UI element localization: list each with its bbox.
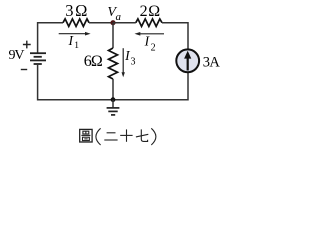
current arrow I3 (pointing down) — [122, 48, 124, 73]
svg-text:1: 1 — [74, 41, 79, 51]
fullwidth right paren — [151, 128, 156, 145]
svg-text:Ω: Ω — [148, 3, 160, 20]
svg-text:a: a — [116, 11, 122, 23]
battery V1 9V plates — [30, 52, 46, 54]
current arrow I2 (pointing left) — [140, 33, 165, 35]
svg-text:3A: 3A — [203, 55, 221, 71]
glyph QI (seven) — [136, 134, 148, 137]
wire bottom node to bottom-right corner — [113, 73, 188, 100]
glyph ER (two) — [107, 132, 116, 134]
glyph TU (figure) — [80, 129, 92, 142]
svg-text:3: 3 — [65, 1, 73, 20]
fullwidth left paren — [96, 128, 101, 145]
wire top-left (battery to 3-ohm resistor) — [38, 23, 63, 54]
wire R6 to bottom node — [112, 79, 114, 100]
wire R3 to node Va — [89, 22, 113, 24]
svg-text:3: 3 — [131, 57, 136, 68]
svg-text:9V: 9V — [9, 48, 25, 63]
wire node Va down to 6-ohm resistor — [112, 23, 114, 48]
resistor R 6ohm (vertical) — [109, 48, 118, 79]
svg-text:Ω: Ω — [91, 53, 103, 70]
glyph SHI (ten) — [120, 134, 132, 136]
svg-text:2: 2 — [151, 42, 156, 53]
ground — [112, 100, 114, 108]
wire node Va to 2-ohm resistor — [113, 22, 136, 24]
node A (Va junction dot) — [110, 20, 115, 25]
current source I 3A — [176, 49, 199, 72]
node bottom junction dot — [111, 97, 116, 102]
svg-text:Ω: Ω — [75, 1, 87, 20]
plus sign — [23, 41, 31, 49]
current source arrow (up) — [187, 58, 189, 71]
caption: chinese "Figure (Twenty-seven)" drawn as strokes — [80, 128, 156, 145]
svg-text:2: 2 — [140, 3, 148, 20]
minus sign — [21, 69, 27, 71]
wire battery negative to bottom-left corner — [38, 64, 113, 100]
current arrow I1 — [59, 33, 86, 35]
wire R2 to top-right corner — [162, 23, 188, 49]
resistor R 3ohm — [63, 19, 89, 27]
resistor R 2ohm — [136, 19, 162, 27]
